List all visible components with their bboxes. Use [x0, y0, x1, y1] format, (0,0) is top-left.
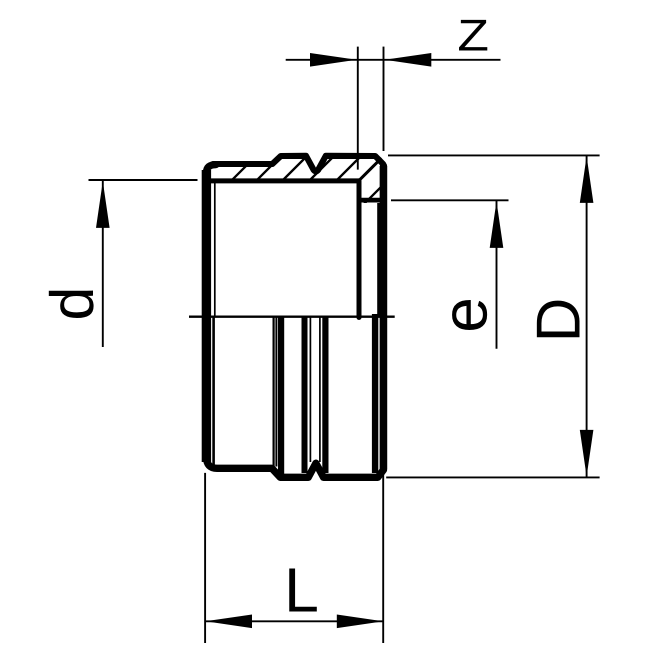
e arrow [490, 201, 504, 248]
svg-text:d: d [38, 287, 106, 321]
e extension line [391, 199, 509, 201]
inner groove lines group A [273, 317, 275, 467]
inner wall right line [372, 314, 378, 473]
L right arrow [337, 615, 384, 629]
Z dimension line [286, 59, 501, 61]
svg-text:L: L [284, 555, 319, 625]
right edge upper widening (socket wall) [377, 203, 387, 316]
inner groove lines group B [302, 317, 308, 473]
white fill of top V-groove notch [303, 148, 329, 174]
L extension lines [204, 473, 206, 643]
body outer profile: sides and bottom [207, 165, 384, 478]
Z extension lines [357, 47, 359, 170]
inner bore top line (bottom of hatched band) [211, 178, 360, 183]
svg-text:Z: Z [457, 11, 489, 60]
L left arrow [205, 615, 252, 629]
D top arrow [580, 156, 594, 203]
d dimension line [102, 181, 104, 347]
hatching of sectioned top band [216, 156, 383, 196]
d extension line [89, 179, 198, 181]
left inner wall line upper [214, 182, 216, 316]
right edge overlay [380, 166, 387, 469]
D top extension line [388, 154, 600, 156]
e dimension line [496, 201, 498, 349]
D bottom arrow [580, 430, 594, 477]
D dimension line [586, 155, 588, 477]
bore right edge [357, 181, 362, 318]
svg-text:e: e [429, 297, 501, 333]
L dimension line [205, 620, 384, 622]
svg-text:D: D [525, 298, 594, 343]
Z right arrow [385, 53, 432, 67]
arrows [96, 53, 593, 628]
d arrow [96, 181, 110, 228]
socket shoulder bottom (column bottom) [358, 198, 382, 203]
socket depth line [189, 316, 395, 318]
body outer profile: top face [213, 156, 383, 172]
inner groove lines group C [319, 317, 321, 462]
hatching of right column (section of socket shoulder) [356, 158, 384, 204]
D bottom extension line [386, 476, 599, 478]
Z left arrow [310, 53, 357, 67]
left edge (thicker overlay) [202, 170, 211, 462]
left inner wall line lower [212, 316, 215, 465]
